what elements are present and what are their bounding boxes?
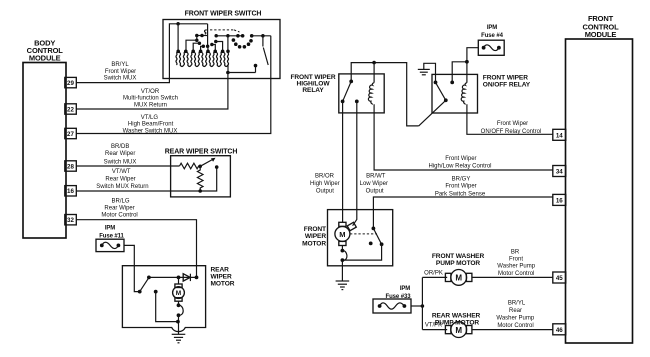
svg-text:WIPER: WIPER (211, 274, 232, 281)
svg-text:Motor Control: Motor Control (497, 323, 533, 329)
svg-text:FRONT WIPER SWITCH: FRONT WIPER SWITCH (185, 11, 262, 18)
svg-text:46: 46 (556, 327, 563, 334)
label VT/OR Multi-function Switch MUX Return (123, 89, 178, 108)
wire front pump to pin45 (472, 276, 553, 278)
pin 45 (FCM) (553, 272, 566, 283)
selector wiper dot to tap T5 (206, 45, 210, 50)
wire pin28 to rear wiper switch (76, 165, 179, 167)
label BR/WT Low Wiper Output (360, 174, 388, 195)
wire motor to ground (341, 260, 343, 281)
wire coil to pin34 (374, 104, 553, 170)
svg-text:MODULE: MODULE (29, 54, 61, 63)
node taps on chain (176, 50, 229, 54)
wire chain end to common rail (227, 65, 229, 73)
label BR/OR High Wiper Output (310, 174, 340, 195)
node contact right (215, 165, 219, 169)
motor M (front wiper) (335, 222, 356, 245)
label BR/YL Front Wiper Switch MUX (104, 62, 137, 81)
svg-text:Front Wiper: Front Wiper (497, 121, 528, 127)
svg-text:ON/OFF RELAY: ON/OFF RELAY (483, 81, 531, 88)
node bottom junction (rear motor) (176, 320, 180, 324)
relay coil (high/low) (368, 63, 374, 105)
svg-text:Motor Control: Motor Control (498, 271, 534, 277)
svg-text:M: M (455, 274, 462, 283)
wire breaker to ground node (178, 315, 180, 334)
svg-text:Rear Wiper: Rear Wiper (105, 151, 135, 157)
wire park sense riser to pin16 (373, 197, 552, 228)
svg-text:MOTOR: MOTOR (211, 281, 235, 288)
node motor tap (177, 276, 181, 280)
ground (rear wiper motor) (172, 334, 186, 343)
wire feed bus to high/low relay (351, 61, 419, 126)
wiper arrow arm (200, 158, 215, 167)
svg-text:32: 32 (67, 217, 74, 224)
switch REAR WIPER SWITCH box (165, 149, 238, 197)
svg-text:REAR WIPER SWITCH: REAR WIPER SWITCH (165, 149, 238, 156)
svg-text:FRONT: FRONT (304, 226, 326, 233)
svg-text:Fuse #4: Fuse #4 (481, 33, 503, 39)
wire relay arm to feed bus (419, 100, 446, 126)
relay switch (high/low) (341, 80, 359, 104)
wire pin16 rear wiper switch return (76, 167, 216, 191)
selector row C to tap T3 (193, 41, 201, 50)
wire pin27 to front wiper switch right contact (76, 36, 270, 134)
svg-text:16: 16 (556, 198, 563, 205)
svg-text:VT/WT: VT/WT (112, 169, 131, 175)
svg-text:REAR: REAR (211, 267, 230, 274)
svg-text:BR/LG: BR/LG (111, 199, 129, 205)
svg-text:34: 34 (556, 169, 563, 176)
svg-text:45: 45 (556, 275, 563, 282)
node tap T1 feed (176, 22, 180, 50)
resistor chain R1-R7 serpentine (176, 51, 229, 66)
node second contact (rear motor) (154, 290, 158, 294)
svg-text:MOTOR: MOTOR (302, 240, 326, 247)
svg-text:Motor Control: Motor Control (101, 212, 137, 218)
svg-text:Switch MUX Return: Switch MUX Return (96, 184, 148, 190)
svg-text:29: 29 (67, 80, 74, 87)
park switch arm (373, 228, 381, 244)
svg-text:Washer Switch MUX: Washer Switch MUX (123, 128, 178, 134)
selector row D to tap T4 (201, 45, 205, 50)
diode (rear motor park) (183, 274, 190, 281)
svg-text:Front Wiper: Front Wiper (445, 156, 476, 162)
svg-text:Front Wiper: Front Wiper (105, 69, 136, 75)
wire pin29 to front wiper switch (76, 24, 207, 83)
wire park arm to bottom rail (342, 244, 381, 260)
svg-text:M: M (176, 290, 181, 297)
svg-text:BR/DB: BR/DB (111, 144, 129, 150)
label VT/LG High Beam/Front Washer Switch MUX (123, 115, 178, 134)
pin 14 (FCM) (553, 129, 566, 140)
selector row G to tap T8 (214, 34, 244, 51)
fuse IPM Fuse #11 (96, 226, 125, 252)
svg-text:Fuse #11: Fuse #11 (99, 233, 124, 239)
svg-text:Rear Wiper: Rear Wiper (104, 206, 134, 212)
pin 16 (FCM) (553, 194, 566, 205)
svg-text:BR: BR (511, 250, 520, 256)
relay FRONT WIPER ON/OFF RELAY (432, 74, 531, 113)
label BR/GY Front Wiper Park Switch Sense (435, 177, 486, 198)
svg-text:Front: Front (509, 256, 523, 262)
pin 27 (BCM) (65, 128, 77, 138)
pin 28 (BCM) (65, 161, 77, 171)
module BODY CONTROL MODULE (23, 39, 66, 238)
selector row E to tap T6 (210, 43, 215, 50)
node switch pivot (rear motor) (138, 290, 142, 294)
svg-text:Output: Output (366, 188, 384, 194)
svg-text:MODULE: MODULE (585, 30, 617, 39)
svg-text:Washer Pump: Washer Pump (496, 315, 534, 321)
svg-text:WIPER: WIPER (305, 233, 326, 240)
mech dashed link park switch (350, 233, 377, 235)
motor FRONT WASHER PUMP MOTOR (432, 253, 485, 285)
svg-text:BR/GY: BR/GY (452, 177, 471, 183)
svg-text:BR/OR: BR/OR (315, 174, 335, 180)
svg-text:IPM: IPM (105, 226, 115, 232)
mech dashed linkage tail (234, 30, 240, 32)
label Front Wiper ON/OFF Relay Control (481, 121, 542, 135)
svg-text:22: 22 (67, 106, 74, 113)
selector row A (195, 34, 208, 42)
fuse IPM Fuse #33 (373, 286, 411, 313)
svg-text:M: M (339, 230, 345, 239)
wire second contact to bottom rail (156, 292, 178, 322)
svg-text:BR/YL: BR/YL (508, 300, 526, 306)
label BR Front Washer Pump Motor Control (497, 250, 535, 277)
relay switch (on/off) (434, 62, 467, 102)
pin 16 (BCM) (65, 186, 77, 196)
svg-text:M: M (455, 326, 462, 335)
svg-text:Low Wiper: Low Wiper (360, 181, 388, 187)
svg-text:PUMP MOTOR: PUMP MOTOR (436, 260, 481, 267)
wire fuse11 to rear wiper motor (124, 245, 140, 291)
pin 29 (BCM) (65, 77, 77, 87)
svg-text:IPM: IPM (400, 286, 410, 292)
motor-box FRONT WIPER MOTOR (302, 210, 393, 266)
breaker loop (front motor) (341, 246, 347, 263)
motor REAR WASHER PUMP MOTOR (432, 313, 481, 338)
switch wash/beam contacts (250, 34, 271, 47)
svg-text:Switch MUX: Switch MUX (104, 159, 137, 165)
svg-text:Front Wiper: Front Wiper (445, 184, 476, 190)
svg-text:14: 14 (556, 132, 563, 139)
svg-text:Rear: Rear (509, 308, 522, 314)
node wiper pivot (198, 165, 202, 169)
label BR/LG Rear Wiper Motor Control (101, 199, 137, 219)
svg-text:MUX Return: MUX Return (134, 102, 167, 108)
motor M (rear wiper) (173, 277, 185, 305)
svg-text:BR/YL: BR/YL (111, 62, 129, 68)
svg-text:High Beam/Front: High Beam/Front (128, 122, 174, 128)
module FRONT CONTROL MODULE (566, 14, 633, 343)
svg-text:FRONT WASHER: FRONT WASHER (432, 253, 485, 260)
rotary contact arc dots (232, 34, 253, 49)
label Front Wiper High/Low Relay Control (428, 156, 491, 169)
svg-text:BR/WT: BR/WT (366, 174, 386, 180)
wire pin32 to rear wiper motor (76, 220, 196, 278)
pin 32 (BCM) (65, 215, 77, 225)
switch FRONT WIPER SWITCH box (163, 11, 280, 79)
label VT/WT Rear Wiper Switch MUX Return (96, 169, 148, 190)
fuse IPM Fuse #4 (478, 25, 504, 55)
mech dashed linkage horizontal (210, 29, 234, 31)
motor-box REAR WIPER MOTOR (122, 266, 234, 332)
node bottom junction (198, 189, 202, 193)
wire pin22 to resistor chain common (76, 73, 228, 110)
label BR/YL Rear Washer Pump Motor Control (496, 300, 534, 329)
svg-text:VT/OR: VT/OR (141, 89, 160, 95)
node arm top contact (147, 276, 151, 280)
ground (front wiper motor) (336, 281, 350, 290)
resistor horizontal (rear wiper switch) (180, 163, 201, 169)
node common rail (226, 64, 257, 74)
wire top rail (rear motor) (149, 276, 197, 278)
wire coil to pin14 (467, 104, 553, 134)
node right rail junction (195, 276, 199, 280)
svg-text:VT/LG: VT/LG (141, 115, 159, 121)
wiper contact spring (205, 24, 208, 47)
switch arm (rear motor) (140, 278, 149, 292)
wire low output to motor (353, 101, 357, 225)
relay coil (on/off) (461, 83, 467, 105)
node park contact top (372, 227, 376, 231)
wire fuse33 to pumps junction (411, 277, 447, 329)
svg-text:IPM: IPM (487, 25, 497, 31)
svg-text:28: 28 (67, 163, 74, 170)
pin 46 (FCM) (553, 324, 566, 335)
svg-text:OR/PK: OR/PK (424, 270, 443, 276)
resistor vertical (rear wiper switch) (197, 166, 203, 191)
breaker loop (rear motor) (177, 303, 184, 317)
svg-text:Multi-function Switch: Multi-function Switch (123, 96, 178, 102)
svg-text:RELAY: RELAY (302, 87, 324, 94)
pin 22 (BCM) (65, 104, 77, 114)
svg-text:Washer Pump: Washer Pump (497, 263, 535, 269)
switch arm wash/beam (263, 48, 268, 66)
svg-text:Switch MUX: Switch MUX (104, 75, 137, 81)
ground (on/off relay) (418, 63, 436, 82)
selector row B to tap T2 (186, 40, 197, 50)
selector row F to tap T7 (214, 40, 223, 50)
svg-text:High/Low Relay Control: High/Low Relay Control (428, 164, 491, 170)
wire fuse4 to coil top (465, 48, 478, 83)
node park arm end (380, 242, 384, 246)
relay FRONT WIPER HIGH/LOW RELAY (290, 74, 384, 113)
node park alternate contact (369, 242, 373, 246)
label BR/DB Rear Wiper Switch MUX (104, 144, 137, 166)
svg-text:16: 16 (67, 188, 74, 195)
svg-text:27: 27 (67, 131, 74, 138)
svg-text:Output: Output (316, 188, 334, 194)
wire high output to motor (342, 101, 344, 222)
pin 34 (FCM) (553, 166, 566, 177)
svg-text:Rear Wiper: Rear Wiper (105, 177, 135, 183)
wire rear pump to pin46 (472, 329, 553, 331)
svg-text:High Wiper: High Wiper (310, 181, 340, 187)
